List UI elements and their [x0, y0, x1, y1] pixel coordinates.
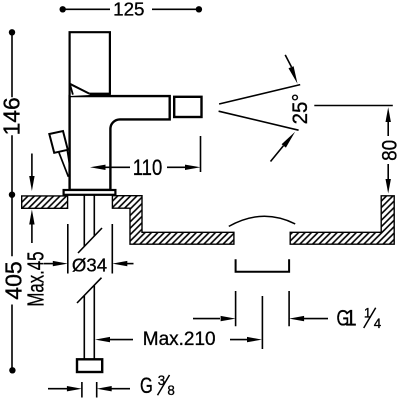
side lever stem	[59, 150, 70, 177]
dot bottom of 405	[9, 367, 15, 373]
svg-text:146: 146	[0, 97, 25, 135]
dot top of 146	[9, 29, 15, 35]
dimension O34 arrows	[44, 261, 134, 266]
dimension O34 extension lines	[68, 224, 113, 274]
svg-text:1: 1	[345, 306, 357, 331]
dimension 125 dot right	[196, 6, 202, 12]
spray upper line	[219, 85, 300, 104]
spray level line	[314, 105, 393, 107]
svg-text:8: 8	[167, 383, 174, 398]
side lever grip	[49, 131, 68, 153]
shank nut	[77, 359, 102, 372]
dimension 125 line	[63, 8, 199, 10]
Max.45 down arrow	[29, 154, 34, 192]
base plate	[64, 190, 116, 195]
shank lower lines	[84, 286, 94, 360]
break diagonal upper	[78, 228, 102, 253]
dimension G3/8 arrows	[48, 386, 130, 391]
spray lower line	[219, 111, 299, 130]
spray lower arrow	[271, 132, 296, 162]
dimension G3/8 extension lines	[82, 382, 97, 398]
svg-text:125: 125	[113, 0, 144, 20]
aerator tip	[174, 97, 201, 117]
dimension 80 line	[386, 107, 391, 193]
spray upper arrow	[285, 55, 297, 84]
svg-text:3: 3	[158, 373, 165, 388]
ceramic hump arc	[229, 216, 295, 226]
dimension 110 line	[90, 165, 201, 170]
svg-text:4: 4	[374, 316, 382, 331]
svg-text:110: 110	[133, 155, 163, 180]
dimension 110 extension line	[200, 136, 202, 172]
svg-text:Max.45: Max.45	[22, 252, 48, 307]
handle cut diagonal	[70, 84, 90, 94]
faucet body outline	[70, 96, 170, 190]
shank upper lines	[84, 196, 94, 247]
countertop left section	[22, 196, 68, 208]
dimension Max.210 line	[95, 337, 262, 342]
bowl bottom right section and right wall	[290, 196, 394, 244]
handle bottom thick edge	[89, 93, 111, 96]
dot mid 146/405	[9, 192, 15, 198]
drain centerline	[261, 296, 263, 349]
handle lever block	[70, 32, 110, 96]
dimension 146/405 vertical line	[11, 32, 13, 370]
G1 1/4 extension lines	[236, 291, 290, 326]
handle pivot line	[70, 84, 73, 95]
dimension 125 dot left	[60, 6, 66, 12]
svg-text:80: 80	[377, 140, 400, 161]
fraction 3/8	[158, 373, 175, 398]
break diagonal lower	[77, 278, 102, 303]
drain U outline	[236, 259, 290, 272]
svg-text:Ø34: Ø34	[72, 255, 107, 276]
svg-text:25°: 25°	[288, 93, 312, 124]
Max.45 up arrow	[29, 210, 34, 244]
dimension G1 1/4 arrows	[193, 316, 328, 321]
svg-text:Max.210: Max.210	[143, 329, 216, 350]
svg-text:G: G	[140, 373, 153, 398]
countertop right section with bowl step	[112, 196, 233, 245]
fraction 1/4	[364, 306, 382, 332]
